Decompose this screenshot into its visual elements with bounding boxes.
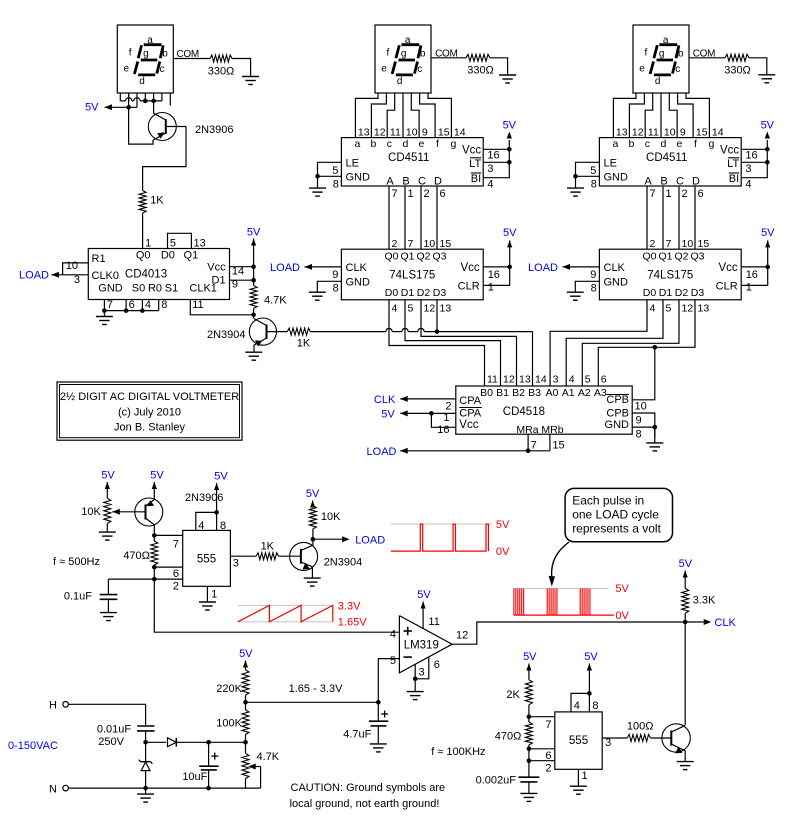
label 5V (R12) xyxy=(679,558,693,570)
note bubble xyxy=(565,488,672,541)
transistor Q2 2N3904 xyxy=(207,318,287,347)
label 5V (LOAD waveform) xyxy=(496,519,510,531)
svg-text:11: 11 xyxy=(487,373,498,385)
wire N line xyxy=(68,787,260,789)
junction (5V/pin1) xyxy=(429,411,434,416)
U3 left pin numbers 9 8 xyxy=(332,269,338,294)
svg-text:D2: D2 xyxy=(675,287,689,299)
svg-text:5V: 5V xyxy=(503,227,517,239)
svg-text:1: 1 xyxy=(145,238,151,250)
svg-text:3: 3 xyxy=(233,558,239,570)
U1 pin numbers 10 3 xyxy=(66,260,80,286)
IC U3 74LS175 xyxy=(341,249,483,300)
svg-text:13: 13 xyxy=(616,127,628,139)
svg-text:Vcc: Vcc xyxy=(461,262,480,274)
wire U3 GND to ground xyxy=(317,281,341,292)
wire CLK to U6 pin2 xyxy=(400,396,456,402)
svg-text:5V: 5V xyxy=(306,488,320,500)
ground (U3) xyxy=(309,292,326,300)
svg-text:CLR: CLR xyxy=(458,281,480,293)
svg-text:11: 11 xyxy=(192,299,203,311)
7-segment display DS1 (digit 1) xyxy=(117,25,173,93)
svg-text:3: 3 xyxy=(553,373,559,385)
svg-text:4: 4 xyxy=(145,299,151,311)
U5 right pin numbers 16 1 xyxy=(746,269,758,293)
svg-text:5V: 5V xyxy=(523,651,537,663)
label 1.65-3.3V xyxy=(289,683,343,695)
svg-text:LT: LT xyxy=(469,158,481,170)
wire divider to U9 -input xyxy=(246,659,400,703)
wire R9 tails xyxy=(153,535,155,567)
wire U4 LE+GND to ground xyxy=(576,162,600,188)
zener diode D2 xyxy=(139,742,153,788)
svg-text:one LOAD cycle: one LOAD cycle xyxy=(572,508,659,522)
wire pin6 to pin2/C5 xyxy=(529,749,555,777)
svg-text:f: f xyxy=(436,138,439,150)
svg-text:Q0: Q0 xyxy=(384,251,398,263)
wire N-line ground stub xyxy=(145,788,147,794)
svg-text:f ≈ 500Hz: f ≈ 500Hz xyxy=(53,556,100,568)
svg-text:Jon B. Stanley: Jon B. Stanley xyxy=(114,422,185,434)
wire R3 to U1 pin1 xyxy=(142,213,144,248)
svg-text:220K: 220K xyxy=(216,683,242,695)
svg-text:0.002uF: 0.002uF xyxy=(476,774,517,786)
svg-text:8: 8 xyxy=(591,282,597,294)
svg-text:Q3: Q3 xyxy=(690,251,704,263)
svg-text:D3: D3 xyxy=(691,287,705,299)
svg-text:D0: D0 xyxy=(643,287,657,299)
5V arrow (U4) xyxy=(765,132,770,139)
junction (pin2 node U8) xyxy=(527,758,532,763)
wire U6 pin8 to ground xyxy=(654,427,656,443)
label CAUTION xyxy=(290,782,446,810)
label 3.3V xyxy=(338,600,361,612)
wire U7 pin3 to R10 xyxy=(230,555,256,557)
svg-text:B3: B3 xyxy=(528,387,541,399)
ground (C5) xyxy=(520,793,537,801)
resistor R10 1K xyxy=(256,540,279,559)
svg-text:Vcc: Vcc xyxy=(207,262,226,274)
ground (DS2 common) xyxy=(499,75,516,83)
svg-text:0-150VAC: 0-150VAC xyxy=(8,740,58,752)
label 5V (R8) xyxy=(101,470,115,482)
resistor R2 330ohm xyxy=(208,55,235,78)
resistor R18 100ohm xyxy=(627,721,654,742)
svg-text:a: a xyxy=(612,138,618,150)
svg-text:g: g xyxy=(450,138,456,150)
svg-text:4.7K: 4.7K xyxy=(264,295,287,307)
label 5V (R16) xyxy=(523,651,537,663)
wire U3 D0 to U6 B0 xyxy=(389,300,485,386)
junction (collector bus / pin4) xyxy=(143,99,148,104)
junction (5V rail / DS1 pin2) xyxy=(126,105,131,110)
wire U5 D1 to U6 A1 xyxy=(566,300,663,386)
junction (U2 pin16) xyxy=(507,147,512,152)
svg-text:12: 12 xyxy=(456,629,468,641)
svg-text:D: D xyxy=(692,175,700,187)
svg-text:5V: 5V xyxy=(150,470,164,482)
label 5V (U2) xyxy=(503,120,517,132)
junction (1.65-3.3V node) xyxy=(243,700,248,705)
svg-text:5V: 5V xyxy=(679,558,693,570)
wire CLK node to Q5 collector xyxy=(684,622,686,725)
resistor R16 2K xyxy=(506,680,532,705)
wire LOAD to U3 CLK xyxy=(305,264,342,270)
label 5V (R13) xyxy=(239,648,253,660)
svg-text:CPB: CPB xyxy=(606,407,629,419)
U5 left pin numbers 9 8 xyxy=(590,269,596,294)
svg-text:5V: 5V xyxy=(761,227,775,239)
svg-text:11: 11 xyxy=(648,127,659,139)
svg-text:d: d xyxy=(402,138,408,150)
capacitor C3 10uF xyxy=(182,742,218,788)
svg-text:555: 555 xyxy=(197,554,216,566)
wire U8 pins 4-8 bridge xyxy=(571,693,589,712)
svg-text:2: 2 xyxy=(445,400,451,412)
svg-text:LOAD: LOAD xyxy=(367,446,397,458)
capacitor C1 0.1uF xyxy=(64,579,118,613)
junction (R4/CLK1/Q2) xyxy=(251,313,256,318)
svg-text:BI: BI xyxy=(729,173,739,185)
svg-text:12: 12 xyxy=(374,127,386,139)
svg-text:B: B xyxy=(402,175,409,187)
svg-text:5V: 5V xyxy=(761,120,775,132)
wire 5V to U7 pin8 xyxy=(214,483,219,512)
svg-text:g: g xyxy=(401,49,407,60)
svg-text:g: g xyxy=(708,138,714,150)
resistor R13 220K xyxy=(216,670,249,695)
svg-text:13: 13 xyxy=(440,302,452,314)
wire U3 D2 to U6 B2 xyxy=(421,300,517,386)
label f=500Hz xyxy=(53,556,100,568)
svg-text:Vcc: Vcc xyxy=(719,262,738,274)
wire U1 CLK1 to Q2 node xyxy=(190,300,253,315)
wire U9 pins 3+6 to ground xyxy=(415,657,429,692)
wire U4 Vcc/LT/BI to 5V xyxy=(741,140,767,178)
svg-text:2K: 2K xyxy=(506,689,520,701)
svg-text:8: 8 xyxy=(333,282,339,294)
svg-text:3: 3 xyxy=(745,163,751,175)
wire U8 pin6 stub xyxy=(529,748,555,750)
svg-text:330Ω: 330Ω xyxy=(467,65,494,77)
U8 pin numbers 7 6 2 xyxy=(545,719,551,775)
resistor R5 1K (Q2 collector load) xyxy=(287,328,311,349)
svg-text:a: a xyxy=(663,35,669,46)
svg-text:MRb: MRb xyxy=(541,424,563,436)
svg-text:5: 5 xyxy=(390,655,396,667)
svg-text:2N3906: 2N3906 xyxy=(195,124,234,136)
svg-text:b: b xyxy=(370,138,376,150)
label CLK (output) xyxy=(714,617,736,629)
svg-text:Q1: Q1 xyxy=(184,250,199,262)
svg-text:3.3K: 3.3K xyxy=(693,594,716,606)
pulse waveform bursts (red) xyxy=(514,588,614,615)
wire 5V to R8 xyxy=(105,482,110,498)
wire 5V to U6 CPA-bar/Vcc xyxy=(400,410,456,427)
label f=100KHz xyxy=(431,746,485,758)
wire U1 R1 to CLK0 (pins 10-3) xyxy=(63,263,89,275)
junction (collector bus / pin5) xyxy=(151,99,156,104)
capacitor C5 0.002uF xyxy=(476,774,540,793)
svg-text:7: 7 xyxy=(408,238,414,250)
svg-text:74LS175: 74LS175 xyxy=(389,270,435,282)
svg-text:(c) July 2010: (c) July 2010 xyxy=(118,407,181,419)
wire DS2 COM to R6 xyxy=(431,57,466,59)
svg-text:CD4511: CD4511 xyxy=(388,152,429,164)
junction (5V/pin9) xyxy=(251,278,256,283)
svg-text:7: 7 xyxy=(531,440,537,452)
wire A3 line to U6 CPB-bar xyxy=(632,347,655,400)
svg-text:D: D xyxy=(434,175,442,187)
svg-text:A3: A3 xyxy=(594,387,607,399)
svg-text:CLR: CLR xyxy=(716,281,738,293)
wire R7 to ground xyxy=(749,58,767,75)
U3 bottom pin numbers 4 5 12 13 xyxy=(392,302,452,314)
label 0-150VAC xyxy=(8,740,58,752)
svg-text:f: f xyxy=(645,48,648,59)
resistor R14 100K xyxy=(216,710,249,735)
svg-text:7: 7 xyxy=(107,299,113,311)
ground (U7) xyxy=(199,602,216,610)
U8 pin number 3 xyxy=(605,737,611,749)
label 5V (R11) xyxy=(306,488,320,500)
junction (R17/pin6) xyxy=(527,747,532,752)
svg-text:5: 5 xyxy=(666,302,672,314)
svg-text:10K: 10K xyxy=(81,506,101,518)
diode D1 xyxy=(168,738,209,747)
junction (C3 tap) xyxy=(206,740,211,745)
U4 top pin numbers 13 12 11 10 9 15 14 xyxy=(616,127,724,139)
label COM (DS3) xyxy=(693,49,715,60)
svg-text:2: 2 xyxy=(392,238,398,250)
svg-text:H: H xyxy=(49,700,57,712)
svg-text:16: 16 xyxy=(437,424,449,436)
svg-text:e: e xyxy=(124,63,130,74)
wire R6 to ground xyxy=(490,58,508,75)
junction (C3/N line) xyxy=(206,786,211,791)
svg-text:14: 14 xyxy=(712,127,724,139)
label LOAD (U6 MR) xyxy=(367,446,397,458)
junction (R9/pin6) xyxy=(152,565,157,570)
svg-text:6: 6 xyxy=(440,188,446,200)
svg-text:2: 2 xyxy=(545,763,551,775)
svg-text:CPB: CPB xyxy=(606,394,629,406)
resistor R9 470ohm xyxy=(123,541,157,565)
svg-text:13: 13 xyxy=(194,238,206,250)
svg-text:Vcc: Vcc xyxy=(459,419,478,431)
svg-text:D2: D2 xyxy=(417,287,431,299)
capacitor C4 4.7uF xyxy=(343,702,388,744)
U7 pin numbers 7 6 2 xyxy=(173,539,179,593)
junction (LOAD/MRa) xyxy=(526,449,531,454)
7-segment display DS2 (digit 2) xyxy=(375,25,431,93)
DS1 pin stubs xyxy=(120,93,170,106)
svg-text:B2: B2 xyxy=(512,387,525,399)
svg-text:GND: GND xyxy=(605,419,630,431)
svg-text:LOAD: LOAD xyxy=(19,270,49,282)
label 5V (U1) xyxy=(247,227,261,239)
U6 right pin numbers 10 9 8 xyxy=(635,400,647,440)
svg-text:Q2: Q2 xyxy=(674,251,688,263)
label 0V (LOAD waveform) xyxy=(496,546,510,558)
svg-text:GND: GND xyxy=(604,277,629,289)
wire Q1 base to R3 xyxy=(143,127,186,191)
wires U2-U3 BCD bus xyxy=(389,186,437,249)
svg-text:f: f xyxy=(129,48,132,59)
wire U2 LE+GND to ground xyxy=(318,162,342,188)
svg-text:5V: 5V xyxy=(214,471,228,483)
svg-text:1: 1 xyxy=(408,188,414,200)
U5 bottom pin numbers 4 5 12 13 xyxy=(650,302,710,314)
label 5V (U7) xyxy=(214,471,228,483)
svg-text:1: 1 xyxy=(582,770,588,782)
svg-text:12: 12 xyxy=(632,127,644,139)
ground (DS1 common) xyxy=(242,77,259,85)
svg-text:Q3: Q3 xyxy=(432,251,446,263)
U8 pin number 1 xyxy=(582,770,588,782)
wire U5 D3 to U6 A3 xyxy=(598,300,695,386)
junction (U3 D3 / B3 line) xyxy=(435,329,440,334)
svg-text:9: 9 xyxy=(680,127,686,139)
svg-text:c: c xyxy=(675,64,680,75)
svg-text:3: 3 xyxy=(74,274,80,286)
svg-text:D0: D0 xyxy=(385,287,399,299)
wire LOAD to U5 CLK xyxy=(563,264,600,270)
junction (pin2 node) xyxy=(152,577,157,582)
ground (U8) xyxy=(570,786,587,794)
wire Q1 collector to DS1 bus xyxy=(153,101,155,114)
svg-text:2N3904: 2N3904 xyxy=(324,557,363,569)
resistor R12 3.3K xyxy=(682,588,716,613)
wire U3 Vcc/CLR to 5V xyxy=(483,240,510,285)
svg-text:4.7uF: 4.7uF xyxy=(343,728,371,740)
svg-text:10: 10 xyxy=(424,238,436,250)
U2 left pin numbers 5 8 xyxy=(332,165,339,191)
svg-text:8: 8 xyxy=(592,700,598,712)
svg-text:15: 15 xyxy=(438,127,450,139)
svg-text:CLK: CLK xyxy=(604,262,626,274)
svg-text:4: 4 xyxy=(745,178,751,190)
junction (LOAD node) xyxy=(311,537,316,542)
svg-text:15: 15 xyxy=(696,127,708,139)
junction (U4 pin16) xyxy=(765,147,770,152)
U2 top pin numbers 13 12 11 10 9 15 14 xyxy=(358,127,466,139)
svg-text:7: 7 xyxy=(650,188,656,200)
svg-text:100Ω: 100Ω xyxy=(627,721,654,733)
5V arrow (U5) xyxy=(765,240,770,247)
wire segment bus (DS1 pins 1,4,5,6) xyxy=(120,98,162,101)
svg-text:BI: BI xyxy=(471,173,481,185)
U3 top pin numbers 2 7 10 15 xyxy=(392,238,452,250)
svg-text:8: 8 xyxy=(636,429,642,441)
wire pin2 stub / C1 branch xyxy=(108,578,182,580)
svg-text:6: 6 xyxy=(698,188,704,200)
svg-text:15: 15 xyxy=(440,238,452,250)
svg-text:Vcc: Vcc xyxy=(720,144,739,156)
svg-text:10: 10 xyxy=(66,260,78,272)
transistor Q3 2N3906 xyxy=(135,492,224,526)
svg-text:250V: 250V xyxy=(98,736,124,748)
transistor Q4 2N3904 xyxy=(290,542,363,570)
svg-text:Vcc: Vcc xyxy=(462,144,481,156)
wire U8 pin7 stub xyxy=(529,716,555,718)
resistor R3 1K xyxy=(139,191,164,214)
junction (R16/pin7) xyxy=(527,714,532,719)
ground (Q4) xyxy=(304,578,321,586)
wire R11 to LOAD node xyxy=(312,529,314,539)
svg-text:f: f xyxy=(387,48,390,59)
svg-text:GND: GND xyxy=(98,283,123,295)
junction (5V/pin14) xyxy=(251,264,256,269)
wire R8 to ground xyxy=(106,523,108,532)
svg-text:14: 14 xyxy=(232,266,244,278)
svg-text:74LS175: 74LS175 xyxy=(647,270,693,282)
svg-text:0.01uF: 0.01uF xyxy=(97,723,132,735)
svg-text:c: c xyxy=(417,64,422,75)
wire U6 CPB to GND pin xyxy=(632,413,655,438)
svg-text:D1: D1 xyxy=(401,287,415,299)
wire 5V to R13 xyxy=(243,661,248,670)
svg-text:A: A xyxy=(644,175,652,187)
junction (U7 pin8) xyxy=(214,510,219,515)
junction (U2 LE/GND) xyxy=(315,174,320,179)
wire sawtooth to U9 +input xyxy=(154,579,399,632)
svg-text:2N3906: 2N3906 xyxy=(185,492,224,504)
ground (C1) xyxy=(100,613,117,621)
svg-text:Each pulse in: Each pulse in xyxy=(572,494,644,508)
U9 pin number 11 xyxy=(428,616,439,628)
pulse waveform reference line xyxy=(514,587,609,589)
svg-text:GND: GND xyxy=(346,277,371,289)
svg-text:CLK0: CLK0 xyxy=(92,270,120,282)
label 5V (U5) xyxy=(761,227,775,239)
svg-text:A0: A0 xyxy=(546,387,559,399)
svg-text:0.1uF: 0.1uF xyxy=(64,591,92,603)
svg-text:2: 2 xyxy=(424,188,430,200)
svg-text:5V: 5V xyxy=(417,589,431,601)
wire U8 pin1 to ground xyxy=(577,769,579,786)
svg-text:1.65V: 1.65V xyxy=(338,616,367,628)
svg-text:10: 10 xyxy=(664,127,676,139)
wire 5V to U8 pin8 xyxy=(587,664,592,694)
junction (D2/N line) xyxy=(143,786,148,791)
svg-text:2: 2 xyxy=(173,581,179,593)
svg-text:1K: 1K xyxy=(297,338,311,350)
svg-text:5V: 5V xyxy=(85,102,99,114)
wire 5V rail (DS1) xyxy=(105,101,138,110)
U1 pin numbers 7 6 4 8 xyxy=(107,299,167,311)
svg-text:S1: S1 xyxy=(165,283,178,295)
svg-text:16: 16 xyxy=(487,150,499,162)
ground (U9) xyxy=(407,692,424,700)
svg-text:5V: 5V xyxy=(247,227,261,239)
label LOAD (Q4 out) xyxy=(355,534,385,546)
svg-text:d: d xyxy=(139,76,145,87)
svg-text:15: 15 xyxy=(552,440,564,452)
label COM (DS1) xyxy=(177,49,199,60)
svg-text:D3: D3 xyxy=(433,287,447,299)
svg-text:10: 10 xyxy=(406,127,418,139)
svg-text:CPA: CPA xyxy=(459,407,481,419)
junction (U1 pin6) xyxy=(124,308,129,313)
label 0V (pulse waveform) xyxy=(615,610,629,622)
wire U1 D1 stub xyxy=(230,279,254,281)
wire pin6 stub xyxy=(154,566,182,568)
svg-text:10: 10 xyxy=(635,400,647,412)
wire 5V to Q3 emitter xyxy=(152,482,157,499)
wire Q3 collector to pin7 node xyxy=(153,525,155,536)
svg-text:1: 1 xyxy=(746,281,752,293)
